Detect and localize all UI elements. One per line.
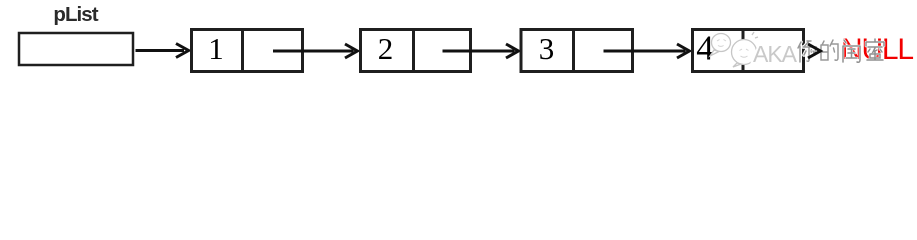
- svg-text:2: 2: [378, 31, 394, 66]
- svg-text:pList: pList: [53, 3, 98, 26]
- svg-text:3: 3: [539, 31, 555, 66]
- svg-text:4: 4: [696, 29, 714, 68]
- svg-text:AKA: AKA: [753, 41, 798, 67]
- svg-text:1: 1: [208, 31, 224, 66]
